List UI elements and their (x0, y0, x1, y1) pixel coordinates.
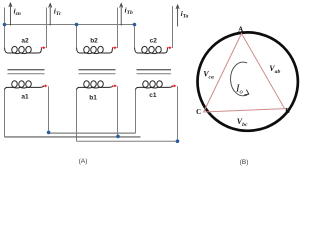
svg-text:c2: c2 (150, 38, 158, 45)
svg-text:a2: a2 (21, 38, 29, 45)
svg-text:A: A (238, 25, 243, 33)
svg-text:(B): (B) (240, 159, 249, 166)
svg-text:(A): (A) (79, 158, 88, 165)
svg-text:B: B (285, 107, 290, 115)
svg-text:b1: b1 (89, 95, 97, 102)
svg-text:c1: c1 (149, 92, 157, 99)
svg-text:C: C (196, 108, 201, 116)
svg-text:a1: a1 (21, 94, 29, 101)
svg-text:b2: b2 (90, 38, 98, 45)
